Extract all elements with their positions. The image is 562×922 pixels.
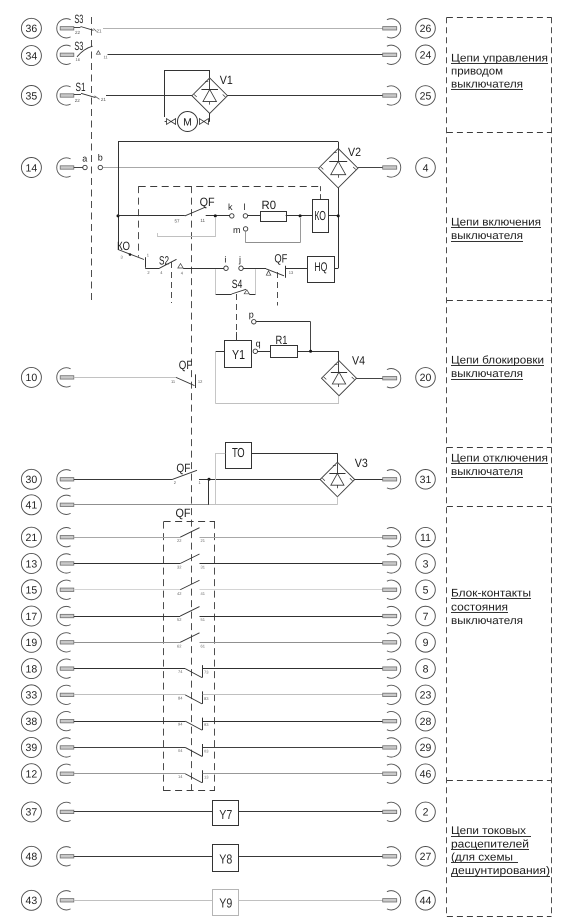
- svg-text:46: 46: [420, 769, 432, 781]
- svg-text:k: k: [228, 202, 233, 212]
- svg-text:4: 4: [423, 162, 429, 174]
- svg-text:74: 74: [178, 669, 183, 674]
- svg-text:m: m: [233, 225, 241, 235]
- svg-text:Блок-контакты: Блок-контакты: [451, 588, 531, 600]
- svg-text:Цепи блокировки: Цепи блокировки: [451, 355, 544, 367]
- svg-text:73: 73: [204, 670, 209, 675]
- svg-text:38: 38: [26, 716, 38, 728]
- svg-text:27: 27: [420, 851, 432, 863]
- svg-text:30: 30: [26, 474, 38, 486]
- svg-text:84: 84: [178, 695, 183, 700]
- svg-text:S1: S1: [76, 80, 86, 94]
- svg-text:выключателя: выключателя: [451, 230, 523, 242]
- svg-text:l: l: [243, 202, 245, 212]
- svg-text:Y9: Y9: [219, 896, 232, 911]
- svg-text:14: 14: [178, 774, 183, 779]
- svg-text:Цепи включения: Цепи включения: [451, 217, 541, 229]
- svg-text:57: 57: [175, 219, 181, 224]
- svg-text:83: 83: [204, 696, 209, 701]
- svg-text:Y1: Y1: [232, 347, 245, 362]
- svg-text:V1: V1: [220, 73, 233, 87]
- svg-text:S3: S3: [74, 39, 83, 53]
- svg-text:Цепи отключения: Цепи отключения: [451, 453, 548, 465]
- svg-text:12: 12: [26, 769, 38, 781]
- svg-text:42: 42: [177, 591, 182, 596]
- svg-text:23: 23: [420, 690, 432, 702]
- svg-text:2: 2: [423, 807, 429, 819]
- svg-text:34: 34: [26, 50, 38, 62]
- svg-text:V3: V3: [355, 456, 368, 470]
- svg-text:9: 9: [423, 637, 429, 649]
- svg-text:дешунтирования): дешунтирования): [451, 865, 550, 877]
- svg-text:i: i: [224, 255, 226, 265]
- svg-text:11: 11: [420, 532, 431, 544]
- svg-text:44: 44: [420, 895, 432, 907]
- svg-text:a: a: [82, 153, 87, 163]
- svg-text:16: 16: [76, 57, 81, 62]
- svg-text:48: 48: [26, 851, 38, 863]
- svg-text:M: M: [183, 116, 192, 128]
- svg-text:04: 04: [178, 748, 183, 753]
- svg-text:V2: V2: [348, 145, 361, 159]
- svg-text:КО: КО: [314, 208, 326, 223]
- svg-text:QF: QF: [200, 195, 215, 209]
- svg-text:выключателя: выключателя: [451, 79, 523, 91]
- svg-text:94: 94: [178, 722, 183, 727]
- svg-text:19: 19: [26, 637, 38, 649]
- svg-text:41: 41: [26, 500, 38, 512]
- svg-text:ТО: ТО: [232, 445, 245, 460]
- svg-text:15: 15: [26, 585, 38, 597]
- svg-text:QF: QF: [176, 506, 191, 520]
- svg-text:31: 31: [420, 474, 432, 486]
- svg-text:выключателя: выключателя: [451, 466, 523, 478]
- svg-text:22: 22: [75, 30, 81, 35]
- svg-text:32: 32: [177, 564, 182, 569]
- svg-text:14: 14: [26, 162, 38, 174]
- svg-text:Y8: Y8: [219, 852, 232, 867]
- svg-text:КО: КО: [117, 239, 130, 253]
- svg-text:3: 3: [423, 558, 429, 570]
- svg-text:13: 13: [26, 558, 38, 570]
- svg-text:28: 28: [420, 716, 432, 728]
- svg-text:расцепителей: расцепителей: [451, 839, 529, 851]
- svg-text:HQ: HQ: [314, 260, 327, 274]
- svg-text:состояния: состояния: [451, 601, 508, 613]
- svg-text:QF: QF: [176, 461, 190, 475]
- svg-text:приводом: приводом: [451, 66, 503, 78]
- svg-text:j: j: [238, 255, 241, 265]
- svg-text:61: 61: [201, 643, 206, 648]
- svg-text:V4: V4: [352, 354, 365, 368]
- svg-text:Y7: Y7: [219, 807, 232, 822]
- svg-text:QF: QF: [274, 252, 287, 266]
- svg-text:22: 22: [75, 98, 81, 103]
- svg-text:S4: S4: [232, 277, 243, 291]
- svg-text:10: 10: [26, 372, 38, 384]
- svg-text:93: 93: [204, 722, 209, 727]
- svg-text:q: q: [256, 339, 261, 349]
- svg-text:b: b: [98, 152, 103, 162]
- svg-text:R1: R1: [276, 333, 288, 347]
- svg-text:S3: S3: [74, 12, 83, 26]
- svg-text:62: 62: [177, 643, 182, 648]
- svg-text:Цепи управления: Цепи управления: [451, 53, 548, 65]
- svg-text:17: 17: [26, 611, 38, 623]
- svg-text:7: 7: [423, 611, 429, 623]
- svg-text:11: 11: [200, 218, 205, 223]
- svg-text:51: 51: [201, 617, 206, 622]
- svg-text:25: 25: [420, 90, 432, 102]
- svg-text:26: 26: [420, 23, 432, 35]
- svg-text:21: 21: [97, 29, 103, 34]
- svg-text:03: 03: [204, 748, 209, 753]
- svg-text:12: 12: [198, 379, 203, 384]
- svg-text:выключателя: выключателя: [451, 368, 523, 380]
- svg-text:33: 33: [26, 690, 38, 702]
- svg-text:R0: R0: [262, 198, 277, 212]
- svg-text:39: 39: [26, 742, 38, 754]
- svg-text:18: 18: [26, 663, 38, 675]
- svg-text:20: 20: [420, 372, 432, 384]
- svg-text:QF: QF: [179, 358, 193, 372]
- svg-text:(для схемы: (для схемы: [451, 852, 513, 864]
- svg-text:22: 22: [177, 538, 182, 543]
- svg-text:p: p: [249, 310, 254, 320]
- svg-text:Цепи токовых: Цепи токовых: [451, 825, 527, 837]
- svg-text:41: 41: [201, 591, 206, 596]
- svg-text:8: 8: [423, 663, 429, 675]
- svg-text:37: 37: [26, 807, 38, 819]
- svg-text:29: 29: [420, 742, 432, 754]
- svg-text:21: 21: [26, 532, 38, 544]
- svg-text:5: 5: [423, 585, 429, 597]
- svg-text:35: 35: [26, 90, 38, 102]
- svg-text:13: 13: [204, 775, 209, 780]
- svg-text:21: 21: [201, 538, 206, 543]
- svg-text:13: 13: [289, 270, 294, 275]
- svg-text:21: 21: [101, 97, 107, 102]
- svg-text:52: 52: [177, 617, 182, 622]
- svg-text:43: 43: [26, 895, 38, 907]
- svg-text:выключателя: выключателя: [451, 615, 523, 627]
- svg-text:24: 24: [420, 50, 432, 62]
- svg-text:36: 36: [26, 23, 38, 35]
- svg-text:31: 31: [201, 564, 206, 569]
